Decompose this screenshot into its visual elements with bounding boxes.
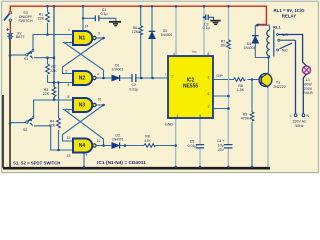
svg-text:N4: N4 <box>79 143 86 149</box>
svg-text:12K: 12K <box>132 30 139 34</box>
svg-text:S1: S1 <box>24 57 28 61</box>
svg-text:3: 3 <box>208 75 210 79</box>
svg-text:1N4001: 1N4001 <box>112 67 124 71</box>
svg-text:RELAY: RELAY <box>282 13 297 18</box>
svg-text:22K: 22K <box>49 123 56 127</box>
svg-text:12: 12 <box>67 136 71 140</box>
svg-text:Vcc: Vcc <box>192 49 198 53</box>
svg-text:2: 2 <box>208 105 210 109</box>
svg-text:25V: 25V <box>218 148 225 152</box>
svg-text:N/O: N/O <box>282 33 289 37</box>
svg-text:IC2: IC2 <box>187 77 195 83</box>
svg-text:S1, S2 = SPDT SWITCH: S1, S2 = SPDT SWITCH <box>13 160 60 165</box>
svg-text:9: 9 <box>68 110 70 114</box>
svg-text:1: 1 <box>68 28 70 32</box>
svg-text:1N4001: 1N4001 <box>112 138 124 142</box>
svg-text:5: 5 <box>66 69 68 73</box>
svg-text:10: 10 <box>98 98 102 102</box>
svg-text:N2: N2 <box>79 76 86 82</box>
svg-text:1N4001: 1N4001 <box>244 46 256 50</box>
svg-text:4: 4 <box>173 52 175 56</box>
svg-text:8: 8 <box>68 95 70 99</box>
svg-text:230V: 230V <box>304 87 313 91</box>
svg-text:6: 6 <box>208 92 210 96</box>
svg-text:SWITCH: SWITCH <box>18 19 33 23</box>
svg-text:N1: N1 <box>79 36 86 42</box>
svg-text:7: 7 <box>86 153 88 157</box>
svg-text:N/C: N/C <box>282 49 289 53</box>
svg-text:2M: 2M <box>221 44 226 48</box>
svg-text:L1: L1 <box>306 78 310 82</box>
svg-text:GND: GND <box>165 122 173 126</box>
svg-text:O/P: O/P <box>216 74 223 78</box>
svg-text:0.1μ: 0.1μ <box>100 12 107 16</box>
svg-text:22K: 22K <box>38 16 45 20</box>
svg-text:50Hz: 50Hz <box>295 124 304 128</box>
svg-text:C5: C5 <box>190 139 195 143</box>
svg-text:0.01μ: 0.01μ <box>129 87 138 91</box>
svg-text:22K: 22K <box>43 92 50 96</box>
svg-text:BATT.: BATT. <box>16 35 26 39</box>
svg-text:N3: N3 <box>79 103 86 109</box>
svg-text:11: 11 <box>97 139 101 143</box>
svg-text:4: 4 <box>97 72 99 76</box>
svg-text:230V AC: 230V AC <box>292 119 307 123</box>
svg-text:T1: T1 <box>276 80 280 84</box>
svg-text:NE555: NE555 <box>183 84 199 90</box>
svg-text:1N4001: 1N4001 <box>161 33 173 37</box>
svg-text:8: 8 <box>207 52 209 56</box>
svg-text:0.01μ: 0.01μ <box>187 144 196 148</box>
svg-text:0.1μ: 0.1μ <box>203 26 210 30</box>
svg-text:470K: 470K <box>241 117 250 121</box>
svg-text:1: 1 <box>177 114 179 118</box>
svg-text:3: 3 <box>98 32 100 36</box>
svg-text:RL1: RL1 <box>273 24 281 29</box>
svg-text:6: 6 <box>67 83 69 87</box>
svg-text:N: N <box>306 114 309 118</box>
svg-text:RL1 = 9V, 1C/O: RL1 = 9V, 1C/O <box>274 8 306 13</box>
svg-text:47K: 47K <box>144 139 151 143</box>
svg-text:5: 5 <box>199 114 201 118</box>
svg-text:1.5K: 1.5K <box>237 88 245 92</box>
svg-text:IC1 (N1-N4) = CD4011: IC1 (N1-N4) = CD4011 <box>97 160 146 166</box>
svg-text:10μ: 10μ <box>218 143 224 147</box>
svg-text:22K: 22K <box>50 69 57 73</box>
svg-text:2: 2 <box>172 74 174 78</box>
svg-text:14: 14 <box>85 25 89 29</box>
svg-text:C4 +: C4 + <box>217 139 225 143</box>
svg-text:13: 13 <box>67 154 71 158</box>
svg-text:BULB: BULB <box>303 91 313 95</box>
svg-text:2: 2 <box>69 42 71 46</box>
svg-text:S2: S2 <box>23 128 27 132</box>
svg-text:L: L <box>290 114 292 118</box>
svg-text:60W: 60W <box>304 82 312 86</box>
svg-text:2N2222: 2N2222 <box>273 85 286 89</box>
